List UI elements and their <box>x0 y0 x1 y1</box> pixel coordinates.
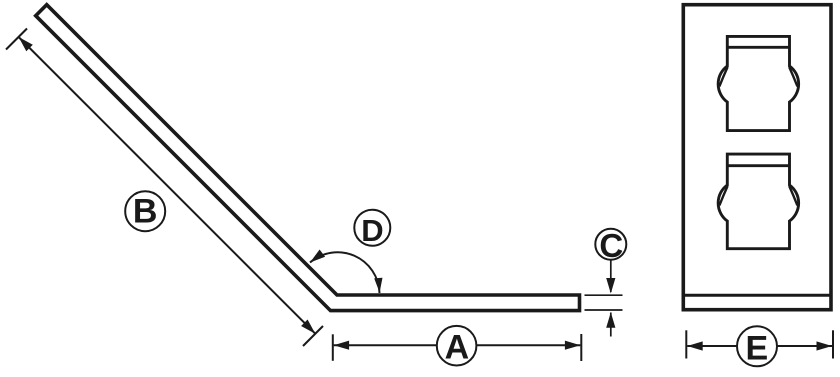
label circle B <box>125 191 165 231</box>
upper slot right wing crescent <box>789 67 797 86</box>
svg-text:B: B <box>133 192 158 230</box>
tick mark B lower <box>303 326 323 346</box>
lower slot <box>718 154 798 249</box>
lower slot left wing crescent <box>719 186 727 205</box>
svg-text:E: E <box>746 330 769 368</box>
lower slot top band line <box>727 164 789 167</box>
arrow E left <box>687 341 703 350</box>
svg-text:C: C <box>599 227 623 264</box>
arrow C up <box>606 312 615 328</box>
label circle A <box>437 326 477 366</box>
end view inner bottom line <box>683 294 831 297</box>
extension line C bottom <box>585 309 623 311</box>
upper slot left wing crescent <box>719 67 727 86</box>
dimension E <box>686 330 833 358</box>
dimension B <box>6 29 323 347</box>
arrow C down <box>606 278 615 294</box>
lower slot right wing crescent <box>789 186 797 205</box>
upper slot <box>718 36 798 130</box>
bent bar part outline <box>36 5 580 311</box>
extension line A left <box>332 334 334 361</box>
dimension line E <box>687 345 832 347</box>
label circle C <box>595 229 626 260</box>
extension line E left <box>685 330 687 358</box>
tick mark B upper <box>6 29 27 50</box>
end view rectangle <box>683 5 831 310</box>
label circle E <box>737 326 777 366</box>
arrow B upper <box>19 37 33 51</box>
dimension A <box>333 334 582 361</box>
arrow D left <box>310 250 325 263</box>
angle arc D <box>310 252 380 293</box>
extension line E right <box>832 330 834 358</box>
arrow D right <box>374 278 382 293</box>
extension line A right <box>580 334 582 361</box>
arrow E right <box>817 341 833 350</box>
leader line C lower <box>610 313 612 337</box>
dimension line B <box>19 37 316 334</box>
arrow B lower <box>301 320 315 334</box>
upper slot top band line <box>727 46 789 49</box>
svg-text:D: D <box>361 213 383 248</box>
leader line C upper <box>610 260 612 292</box>
dimension C <box>585 260 623 337</box>
svg-text:A: A <box>445 328 470 366</box>
extension line C top <box>585 294 623 296</box>
arrow A left <box>334 341 350 350</box>
label circle D <box>354 210 390 246</box>
arrow A right <box>565 341 581 350</box>
dimension line A <box>334 344 581 346</box>
